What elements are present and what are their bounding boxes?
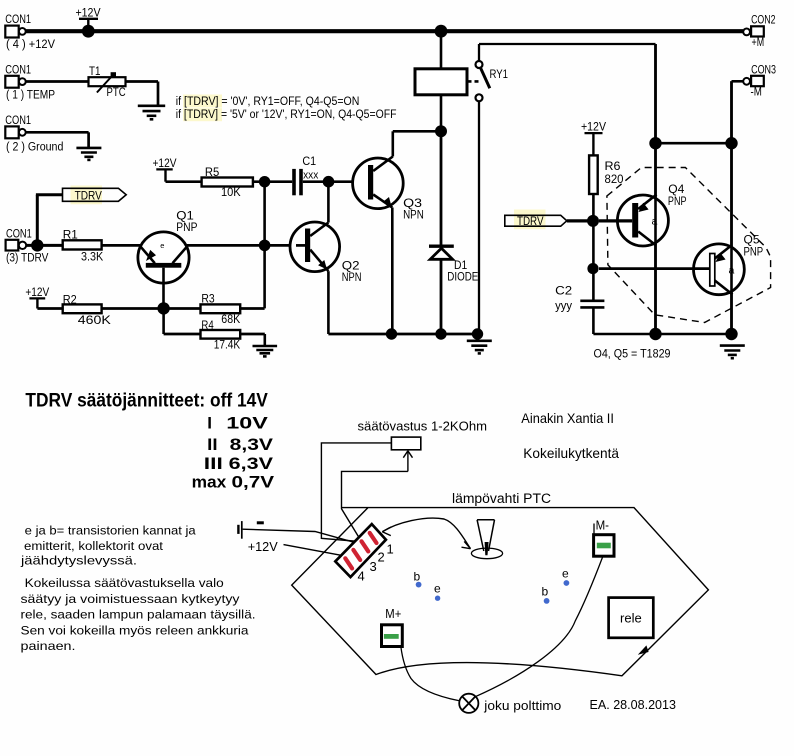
svg-text:+12V: +12V	[248, 539, 278, 554]
svg-text:säätyy ja voimistuessaan kytke: säätyy ja voimistuessaan kytkeytyy	[21, 592, 241, 606]
svg-text:DIODE: DIODE	[447, 270, 478, 284]
svg-text:I: I	[207, 413, 212, 432]
svg-text:68K: 68K	[221, 312, 241, 326]
svg-text:( 2 ) Ground: ( 2 ) Ground	[6, 141, 63, 153]
svg-text:RY1: RY1	[490, 67, 509, 81]
svg-text:e ja b= transistorien kannat j: e ja b= transistorien kannat ja	[25, 524, 196, 538]
svg-text:e: e	[562, 567, 569, 581]
svg-text:lämpövahti PTC: lämpövahti PTC	[452, 491, 551, 507]
svg-text:0,7V: 0,7V	[232, 473, 275, 492]
svg-text:2: 2	[378, 550, 385, 565]
svg-text:joku polttimo: joku polttimo	[483, 698, 561, 713]
svg-text:CON1: CON1	[5, 14, 31, 26]
svg-text:jäähdytyslevyssä.: jäähdytyslevyssä.	[20, 554, 137, 568]
svg-text:PNP: PNP	[668, 194, 687, 208]
svg-text:M-: M-	[596, 519, 609, 533]
svg-text:CON1: CON1	[6, 228, 32, 240]
svg-text:PNP: PNP	[176, 220, 197, 234]
svg-text:max: max	[192, 473, 227, 492]
svg-text:C1: C1	[302, 154, 316, 168]
svg-text:T1: T1	[89, 64, 101, 78]
svg-text:( 1 ) TEMP: ( 1 ) TEMP	[6, 90, 55, 102]
svg-text:e: e	[434, 582, 441, 596]
svg-text:8,3V: 8,3V	[230, 435, 274, 454]
svg-text:NPN: NPN	[403, 208, 424, 222]
svg-text:(3) TDRV: (3) TDRV	[6, 252, 49, 264]
svg-text:CON3: CON3	[751, 64, 776, 76]
svg-text:if [TDRV] = '5V' or '12V', RY1: if [TDRV] = '5V' or '12V', RY1=ON, Q4-Q5…	[176, 107, 397, 121]
svg-text:6,3V: 6,3V	[229, 454, 274, 473]
svg-text:C2: C2	[555, 284, 572, 298]
svg-text:CON2: CON2	[751, 15, 775, 27]
svg-text:Ainakin Xantia II: Ainakin Xantia II	[521, 411, 614, 426]
svg-text:b: b	[542, 585, 549, 599]
svg-text:Kokeilussa säätövastuksella va: Kokeilussa säätövastuksella valo	[25, 576, 224, 590]
svg-text:+12V: +12V	[153, 156, 178, 170]
svg-text:460K: 460K	[78, 313, 112, 327]
svg-text:+12V: +12V	[75, 6, 101, 20]
svg-text:10V: 10V	[226, 413, 268, 432]
svg-text:if [TDRV] = '0V', RY1=OFF, Q4-: if [TDRV] = '0V', RY1=OFF, Q4-Q5=ON	[176, 94, 360, 108]
svg-text:R6: R6	[605, 159, 621, 173]
svg-text:rele, saaden lampun palamaan t: rele, saaden lampun palamaan täysillä.	[21, 608, 256, 622]
svg-text:III: III	[204, 454, 223, 473]
svg-text:emitterit, kollektorit ovat: emitterit, kollektorit ovat	[24, 539, 164, 553]
svg-text:3: 3	[370, 559, 377, 574]
svg-text:Sen voi kokeilla myös releen a: Sen voi kokeilla myös releen ankkuria	[21, 623, 249, 637]
svg-text:M+: M+	[385, 607, 401, 621]
svg-text:17.4K: 17.4K	[214, 338, 241, 352]
svg-text:säätövastus 1-2KOhm: säätövastus 1-2KOhm	[358, 418, 488, 433]
svg-text:rele: rele	[620, 611, 642, 626]
svg-text:TDRV: TDRV	[517, 214, 544, 228]
svg-text:+M: +M	[752, 37, 765, 49]
svg-text:R3: R3	[201, 291, 214, 305]
svg-text:NPN: NPN	[342, 270, 362, 284]
svg-text:b: b	[414, 570, 421, 584]
svg-text:+12V: +12V	[25, 285, 49, 299]
svg-text:1: 1	[387, 542, 394, 557]
svg-text:II: II	[207, 435, 217, 454]
svg-text:PTC: PTC	[107, 85, 126, 99]
svg-text:( 4 ) +12V: ( 4 ) +12V	[6, 39, 55, 51]
svg-text:CON1: CON1	[5, 64, 31, 76]
svg-text:+12V: +12V	[581, 120, 607, 134]
svg-text:yyy: yyy	[555, 299, 573, 313]
svg-text:EA. 28.08.2013: EA. 28.08.2013	[590, 697, 677, 712]
svg-text:TDRV: TDRV	[75, 189, 103, 203]
svg-text:Kokeilukytkentä: Kokeilukytkentä	[523, 446, 619, 461]
svg-text:O4, Q5 = T1829: O4, Q5 = T1829	[594, 347, 671, 361]
svg-text:4: 4	[358, 569, 365, 584]
svg-text:10K: 10K	[221, 185, 241, 199]
svg-text:TDRV säätöjännitteet: off 14V: TDRV säätöjännitteet: off 14V	[25, 390, 268, 411]
svg-text:PNP: PNP	[744, 245, 764, 259]
svg-text:-M: -M	[751, 87, 762, 99]
svg-text:e: e	[160, 241, 164, 250]
svg-text:xxx: xxx	[303, 170, 319, 182]
svg-text:3.3K: 3.3K	[81, 249, 104, 263]
svg-text:painaen.: painaen.	[21, 639, 76, 653]
